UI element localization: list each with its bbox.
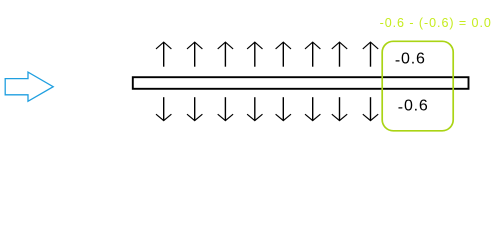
up arrow 3	[218, 42, 233, 67]
down arrow 4	[247, 97, 262, 120]
up arrow 2	[187, 42, 202, 67]
down arrow 8	[363, 97, 378, 120]
up arrow 8	[363, 42, 378, 67]
down arrow 2	[187, 97, 202, 120]
green rounded highlight box	[382, 41, 453, 131]
down arrow 6	[305, 97, 320, 120]
svg-text:-0.6: -0.6	[395, 51, 426, 70]
up arrow 4	[247, 42, 262, 67]
down arrow 7	[332, 97, 347, 120]
down arrow 1	[156, 97, 171, 120]
up arrow 1	[156, 42, 171, 67]
up arrow 6	[305, 42, 320, 67]
up arrow 7	[332, 42, 347, 67]
up arrow 5	[276, 42, 291, 67]
horizontal bar / plate	[133, 77, 469, 89]
svg-text:-0.6: -0.6	[398, 98, 429, 117]
down arrow 3	[218, 97, 233, 120]
blue block arrow (pointing right)	[5, 72, 53, 101]
down arrow 5	[276, 97, 291, 120]
svg-text:-0.6 - (-0.6) = 0.0: -0.6 - (-0.6) = 0.0	[380, 16, 492, 30]
